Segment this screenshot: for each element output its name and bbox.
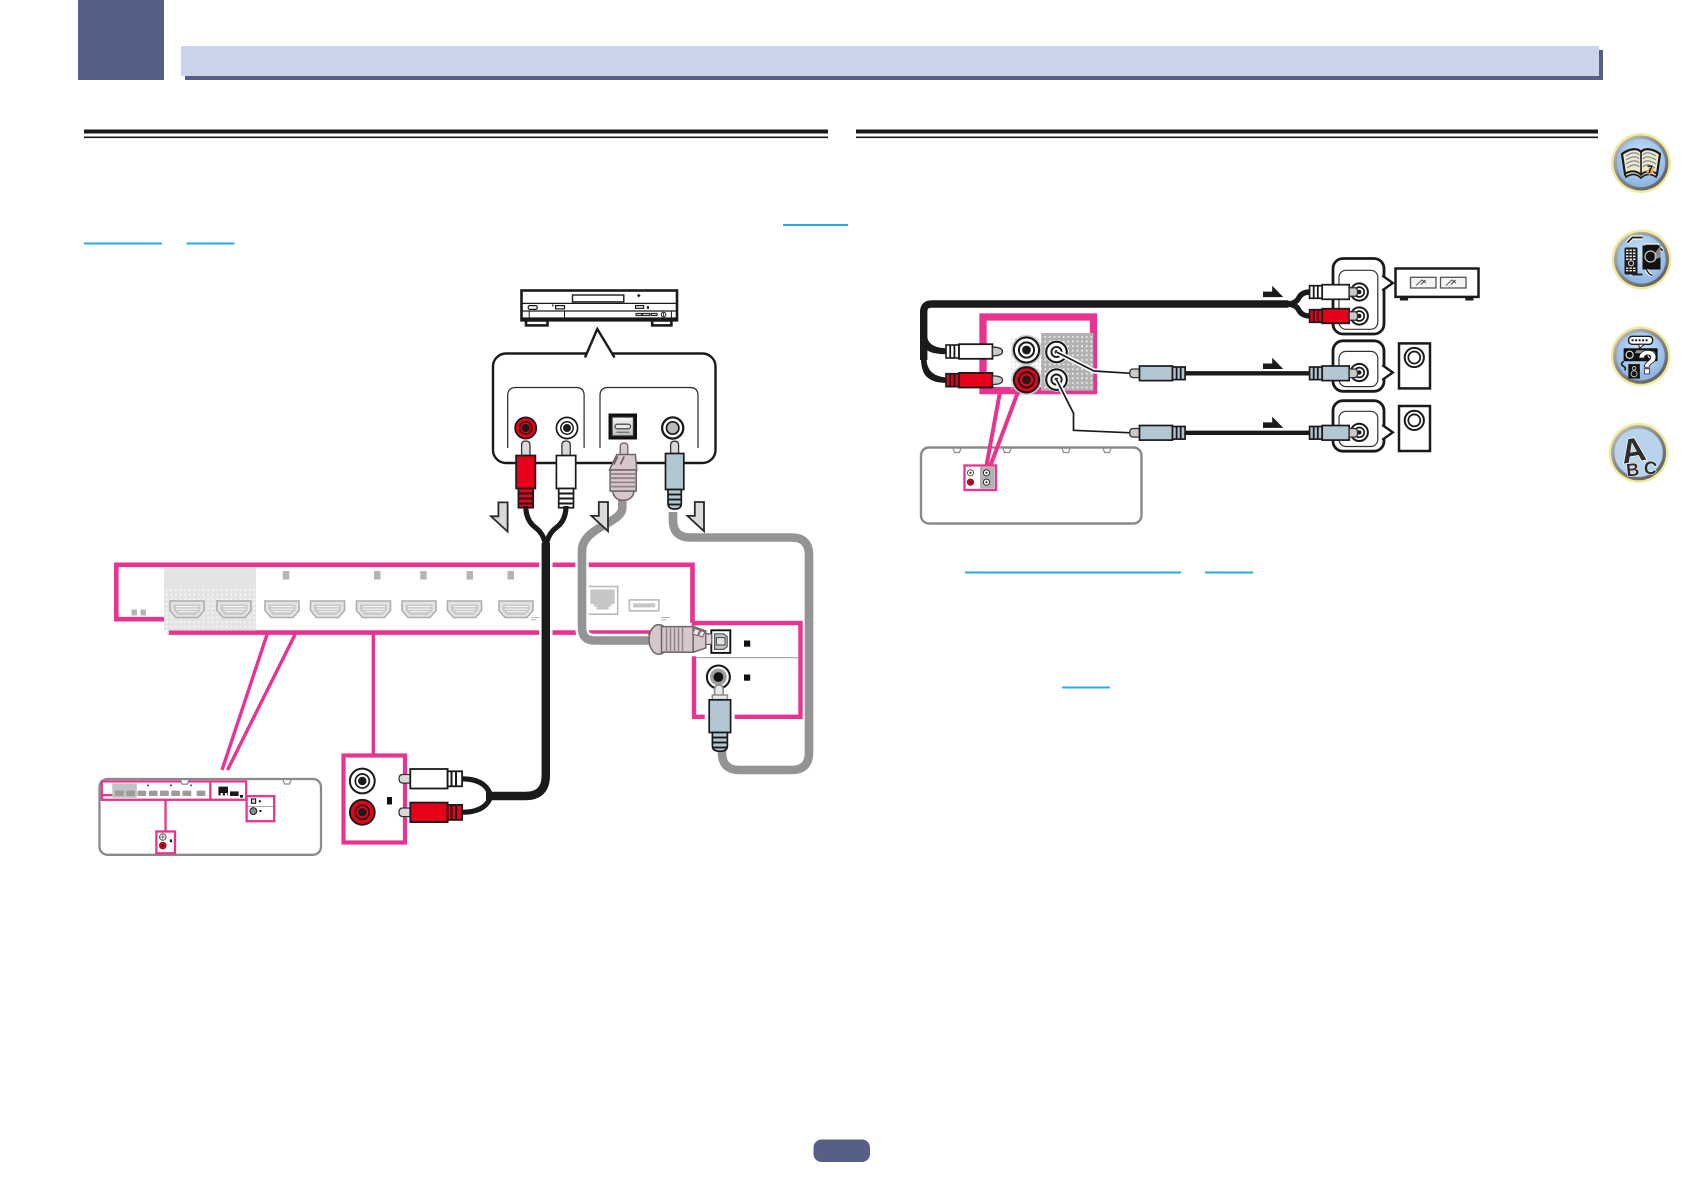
white analog plug bbox=[556, 441, 575, 508]
flow arrow 2 bbox=[591, 502, 608, 531]
digital out group bracket bbox=[600, 388, 698, 449]
direction arrow 2 bbox=[1263, 358, 1283, 369]
header bar bbox=[181, 46, 1599, 76]
svg-text:7: 7 bbox=[1647, 164, 1653, 176]
LAN port bbox=[587, 587, 617, 615]
panel tick marks bbox=[531, 618, 670, 620]
SUBWOOFER PRE OUT jack 2 bbox=[1045, 368, 1069, 392]
direction arrow 3 bbox=[1263, 417, 1283, 428]
AUDIO OUT white jack bbox=[1012, 336, 1041, 365]
red analog plug bbox=[516, 441, 535, 508]
amplifier panel jack R bbox=[1351, 307, 1368, 324]
subwoofer cable 2 right plug bbox=[1310, 426, 1358, 441]
analog stereo cable (black) bbox=[526, 506, 546, 547]
subwoofer cable 2 left plug bbox=[1130, 426, 1185, 441]
right column heading rule bbox=[856, 130, 1598, 134]
subwoofer cable row 1 bbox=[1183, 371, 1311, 375]
receiver coaxial IN jack bbox=[707, 666, 730, 689]
hyperlink underlines bbox=[783, 224, 848, 226]
nav icon: system with question mark bbox=[1611, 326, 1671, 386]
red plug into AUDIO IN bbox=[399, 803, 462, 823]
flow arrow 3 bbox=[687, 502, 704, 531]
amplifier panel jack L bbox=[1351, 283, 1368, 300]
AUDIO OUT red jack bbox=[1012, 366, 1041, 395]
AUDIO OUT highlight box (pink) bbox=[983, 317, 1094, 391]
header chapter tab bbox=[78, 0, 164, 80]
svg-text:B: B bbox=[1625, 459, 1640, 480]
white plug into AUDIO IN bbox=[399, 769, 462, 789]
subwoofer input panel 1 (callout) bbox=[1333, 341, 1393, 392]
coaxial plug at player (light blue) bbox=[666, 441, 684, 509]
optical plug at player bbox=[610, 443, 637, 500]
two small squares at panel left bbox=[132, 610, 138, 616]
page number badge bbox=[814, 1140, 871, 1163]
coaxial plug at receiver (light blue, pointing up) bbox=[705, 713, 735, 722]
player feet bbox=[526, 320, 548, 325]
receiver rear panel highlight (pink) bbox=[116, 565, 692, 633]
callout balloon tail bbox=[587, 329, 614, 356]
analog L/R jack white bbox=[556, 417, 577, 438]
thin lines from subwoofer jacks to cables bbox=[1057, 352, 1132, 373]
small audio in box bbox=[156, 832, 175, 854]
direction arrow 1 (solid) bbox=[1263, 286, 1283, 297]
optical digital out port bbox=[609, 414, 638, 440]
optical plug at receiver (horizontal) bbox=[691, 626, 698, 657]
coaxial cable (gray) bbox=[673, 512, 809, 770]
subwoofer cable row 2 bbox=[1183, 431, 1311, 435]
analog audio out group bracket bbox=[508, 388, 584, 449]
pink leader lines to receiver bbox=[987, 392, 1001, 466]
optical cable (gray) bbox=[582, 498, 651, 641]
analog L/R jack red bbox=[515, 417, 536, 438]
white plug to amplifier bbox=[1310, 285, 1358, 300]
white casing under cables crossing the pink panel bbox=[539, 552, 552, 660]
AUDIO IN detail box (pink) bbox=[344, 756, 406, 843]
pink hdmi row highlight bbox=[112, 783, 137, 797]
left column heading rule bbox=[84, 130, 828, 134]
small receiver unit (rear view) bbox=[100, 779, 322, 855]
powered subwoofer 1 bbox=[1399, 343, 1430, 388]
analog cable run to amplifier (black) bbox=[925, 338, 951, 351]
red plug (to receiver AUDIO IN R) bbox=[924, 358, 1003, 388]
header bar shadow bbox=[185, 50, 1603, 80]
pink leader line to AUDIO IN detail bbox=[372, 635, 375, 756]
svg-text:?: ? bbox=[1638, 344, 1658, 380]
amplifier input panel (callout) bbox=[1333, 259, 1393, 335]
subwoofer input panel 2 (callout) bbox=[1333, 401, 1393, 452]
pink line down to analog jacks bbox=[164, 800, 166, 832]
subwoofer cable 1 right plug bbox=[1310, 366, 1358, 381]
small highlight box on receiver bbox=[965, 466, 997, 491]
small digital in box bbox=[247, 796, 275, 821]
subwoofer panel 1 jack bbox=[1351, 364, 1368, 381]
HDMI IN ports row bbox=[170, 601, 204, 618]
subwoofer cable 1 left plug bbox=[1130, 366, 1185, 381]
pink leader lines to small receiver bbox=[222, 635, 267, 770]
SUBWOOFER PRE OUT jack 1 bbox=[1045, 340, 1069, 364]
white plug (to receiver AUDIO IN L) bbox=[924, 338, 1003, 359]
callout balloon body bbox=[493, 354, 716, 464]
AUDIO IN white jack bbox=[350, 769, 375, 794]
nav icon: manual book bbox=[1611, 133, 1671, 193]
coaxial digital out jack bbox=[662, 417, 683, 438]
nav icon: glossary ABC bbox=[1609, 423, 1669, 483]
USB port bbox=[629, 600, 658, 611]
flow arrow 1 (gray outline) bbox=[491, 502, 508, 531]
receiver optical IN port bbox=[711, 630, 730, 653]
amplifier box bbox=[1396, 269, 1479, 301]
AUDIO IN red jack bbox=[350, 800, 375, 825]
powered subwoofer 2 bbox=[1399, 406, 1430, 451]
subwoofer panel 2 jack bbox=[1351, 424, 1368, 441]
receiver unit (rear view, right column) bbox=[921, 448, 1142, 524]
nav icon: remote and speaker bbox=[1612, 230, 1672, 290]
CD/BD player (source device) bbox=[522, 291, 678, 321]
red plug to amplifier bbox=[1310, 309, 1358, 324]
rear panel gray patch behind HDMI IN 1/2 bbox=[164, 568, 256, 631]
digital IN detail box (pink) bbox=[694, 623, 801, 717]
screw marks above HDMI ports bbox=[283, 571, 290, 580]
svg-text:C: C bbox=[1643, 457, 1659, 479]
